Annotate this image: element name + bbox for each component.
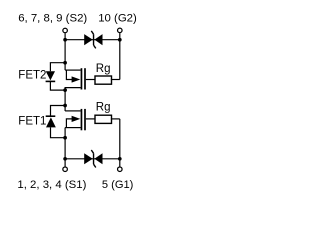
FET1 body arrow bbox=[72, 116, 81, 122]
body diode D2 bbox=[46, 63, 66, 90]
resistor Rg1 bbox=[95, 115, 112, 123]
junction node drain1 bbox=[63, 104, 67, 108]
wire: top rail S2 to G2 bbox=[65, 39, 120, 41]
FET1 body tie bbox=[66, 119, 73, 128]
resistor Rg2 bbox=[95, 76, 112, 84]
junction dot top-left bbox=[63, 38, 67, 42]
FET2 source stub bbox=[65, 69, 81, 71]
junction dot top-right bbox=[118, 38, 122, 42]
svg-text:5 (G1): 5 (G1) bbox=[102, 179, 133, 191]
terminal S2 bbox=[63, 28, 68, 33]
zener Z1 gate-source protection (bottom) bbox=[84, 150, 102, 168]
wire: left rail common drain segment bbox=[64, 88, 66, 111]
FET2 body arrow bbox=[72, 76, 81, 82]
svg-text:1, 2, 3, 4 (S1): 1, 2, 3, 4 (S1) bbox=[17, 179, 86, 191]
wire: Rg1 elbow to G1 terminal bbox=[119, 119, 121, 167]
terminal G1 bbox=[118, 167, 123, 172]
FET1 source stub bbox=[65, 127, 81, 129]
body diode D1 bbox=[46, 106, 65, 138]
FET1 drain stub bbox=[65, 110, 81, 112]
FET2 body tie bbox=[66, 70, 73, 79]
zener Z2 gate-source protection (top) bbox=[84, 31, 102, 49]
FET2 gate bar bbox=[84, 68, 86, 89]
junction node S2/D2 anode bbox=[63, 61, 67, 65]
FET1 gate bar bbox=[84, 109, 86, 130]
junction dot bottom-right bbox=[118, 157, 122, 161]
svg-text:FET2: FET2 bbox=[18, 69, 46, 81]
junction dot bottom-left bbox=[63, 157, 67, 161]
wire: bottom rail S1 to G1 bbox=[65, 158, 120, 160]
FET1 gate stub bbox=[86, 118, 96, 120]
mosfet FET2 bbox=[65, 68, 96, 90]
mosfet FET1 bbox=[65, 109, 96, 130]
wire: Rg1 to right rail bbox=[111, 118, 120, 120]
svg-text:FET1: FET1 bbox=[18, 116, 46, 128]
wire: Rg2 to right rail bbox=[111, 79, 120, 81]
svg-text:Rg: Rg bbox=[96, 101, 111, 113]
FET1 channel bar bbox=[80, 109, 82, 130]
FET2 drain stub bbox=[65, 88, 81, 91]
terminal G2 bbox=[118, 28, 123, 33]
svg-text:Rg: Rg bbox=[96, 63, 111, 75]
junction node drain2 bbox=[63, 88, 67, 92]
wire: S2 terminal to left rail top bbox=[64, 33, 66, 70]
FET2 gate stub bbox=[86, 79, 96, 81]
junction node source1 bbox=[63, 136, 67, 140]
terminal S1 bbox=[63, 167, 68, 172]
svg-text:6, 7, 8, 9 (S2): 6, 7, 8, 9 (S2) bbox=[18, 12, 87, 24]
svg-text:10 (G2): 10 (G2) bbox=[98, 12, 137, 24]
wire: left rail S1 segment bbox=[64, 128, 66, 167]
wire: G2 terminal to Rg2 elbow bbox=[119, 33, 121, 79]
FET2 channel bar bbox=[80, 68, 82, 89]
